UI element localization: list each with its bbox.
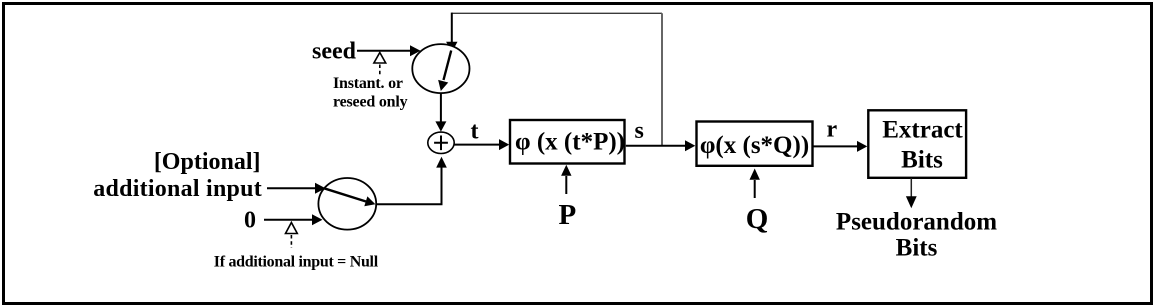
svg-text:0: 0 [244, 208, 256, 234]
svg-text:r: r [827, 117, 838, 143]
block B2 phi(x(s*Q)) [697, 122, 813, 166]
svg-text:Bits: Bits [901, 146, 943, 173]
wire 0 into switch S2 [264, 219, 313, 221]
wire S1 to adder [440, 93, 442, 122]
wire t [454, 144, 499, 146]
svg-text:Instant. or: Instant. or [333, 75, 403, 92]
wire P into B1 [565, 176, 567, 194]
wire additional input into switch S2 [267, 187, 316, 189]
wire feedback right vertical [661, 13, 663, 145]
wire S2 output to adder [376, 167, 442, 204]
switch S1 (seed/reseed selector) circle [412, 44, 469, 93]
dashed stem instantiate [379, 65, 381, 78]
wire feedback top horizontal [452, 12, 662, 14]
arrowhead into switch S1 top [446, 42, 457, 52]
arrowhead additional input into S2 [315, 183, 326, 194]
adder circle [428, 132, 454, 153]
arrowhead output [906, 196, 917, 208]
arrowhead t into block B1 [499, 139, 509, 150]
svg-text:seed: seed [312, 38, 357, 64]
switch S2 (additional input selector) circle [318, 178, 376, 230]
wire Q into B2 [754, 180, 756, 198]
wire s [626, 145, 685, 147]
block B1 phi(x(t*P)) [510, 120, 625, 164]
arrowhead seed into S1 [410, 45, 421, 56]
svg-text:If additional input = Null: If additional input = Null [214, 253, 379, 270]
wire seed into S1 [357, 50, 410, 52]
wire r [813, 145, 858, 147]
arrowhead into adder bottom [436, 157, 447, 168]
wire output of Extract Bits [910, 178, 912, 197]
arrowhead into adder top [435, 121, 446, 131]
arrowhead r into Extract block [857, 141, 867, 152]
svg-text:reseed only: reseed only [333, 94, 408, 111]
arrowhead s into block B2 [685, 140, 695, 151]
switch S1 lever arrowhead [438, 80, 448, 91]
svg-text:Extract: Extract [882, 116, 963, 143]
adder plus sign [434, 136, 448, 151]
svg-text:t: t [471, 119, 479, 145]
svg-text:φ(x (s*Q)): φ(x (s*Q)) [700, 132, 809, 159]
svg-text:additional input: additional input [93, 176, 262, 202]
svg-text:Pseudorandom: Pseudorandom [836, 208, 997, 235]
svg-text:Bits: Bits [896, 235, 938, 262]
svg-text:[Optional]: [Optional] [154, 149, 261, 175]
arrowhead 0 into S2 [312, 214, 323, 225]
arrowhead Q into B2 [750, 169, 760, 180]
svg-text:φ (x (t*P)): φ (x (t*P)) [515, 129, 625, 156]
switch S2 lever [324, 188, 366, 201]
switch S2 lever arrowhead [364, 196, 375, 206]
dashed stem if-null [290, 235, 292, 248]
wire feedback left vertical into switch S1 [451, 13, 453, 43]
svg-text:P: P [559, 199, 577, 231]
switch S1 lever [444, 51, 452, 81]
svg-text:Q: Q [746, 203, 769, 235]
hollow arrow instantiate [374, 53, 386, 64]
svg-text:s: s [635, 118, 644, 144]
hollow arrow if-null [286, 223, 298, 234]
block Extract Bits [868, 110, 966, 178]
arrowhead P into B1 [561, 165, 571, 176]
